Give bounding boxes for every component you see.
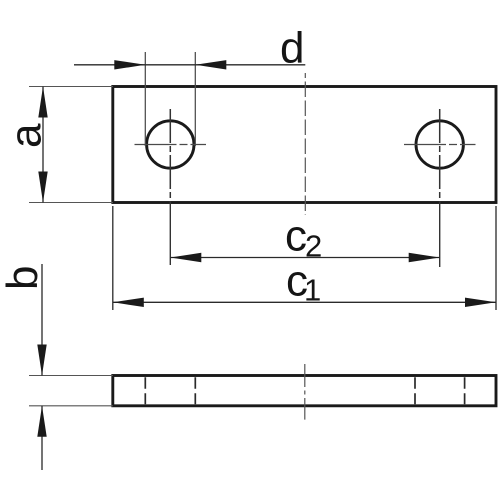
- hole 2 horizontal center line: [404, 144, 476, 146]
- svg-text:c: c: [285, 212, 307, 261]
- dimension b line lower segment: [41, 406, 43, 470]
- side view hole 1 right edge line: [194, 377, 196, 404]
- side view center line: [304, 364, 306, 420]
- dimension b arrow up (tip at bottom edge): [37, 406, 46, 437]
- dimension d arrow left (pointing right): [114, 60, 145, 69]
- side view hole 2 right edge line: [464, 377, 466, 404]
- dimension a arrow down: [38, 172, 47, 203]
- dimension c1 extension line left (below plate left edge): [112, 206, 114, 310]
- side view outline: [113, 376, 496, 406]
- dimension c2 arrow right (pointing right): [409, 253, 440, 262]
- hole 2 (right): [416, 121, 463, 168]
- hole 1 horizontal center line: [135, 144, 207, 146]
- dimension c1 arrow right (pointing right): [465, 298, 496, 307]
- plate front view outline: [113, 87, 496, 203]
- hole 2 center extension line (to c2): [439, 203, 441, 267]
- svg-text:a: a: [2, 123, 51, 148]
- side view hole 1 left edge line: [144, 377, 146, 404]
- dimension c2 line: [170, 257, 439, 259]
- svg-text:1: 1: [304, 273, 321, 308]
- dimension a extension line top: [29, 86, 113, 88]
- dimension a arrow up: [38, 87, 47, 118]
- dimension a extension line bottom: [29, 202, 113, 204]
- hole 1 (left): [147, 121, 194, 168]
- dimension b extension line top: [29, 375, 113, 377]
- dimension c1 line: [113, 301, 496, 303]
- hole 1 center extension line (to c2): [169, 203, 171, 265]
- dimension c1 arrow left (pointing left): [113, 298, 144, 307]
- dimension b extension line bottom: [29, 405, 113, 407]
- dimension a line: [42, 87, 44, 203]
- dimension d extension line left (hole 1 left tangent): [144, 52, 146, 146]
- svg-text:d: d: [280, 24, 304, 73]
- hole 1 vertical center line: [169, 109, 171, 203]
- dimension d line right segment: [195, 64, 305, 66]
- dimension b line upper segment: [41, 264, 43, 376]
- dimension c1 extension line right (below plate right edge): [495, 206, 497, 310]
- dimension d arrow right (pointing left): [195, 60, 226, 69]
- hole 2 vertical center line: [439, 109, 441, 203]
- dimension b arrow down (tip at top edge): [37, 345, 46, 376]
- plate symmetry center line (front view): [304, 73, 306, 215]
- svg-text:b: b: [0, 266, 47, 290]
- dimension c2 arrow left (pointing left): [170, 253, 201, 262]
- dimension d line middle segment: [145, 64, 195, 66]
- dimension d line left segment: [74, 64, 145, 66]
- dimension d extension line right (hole 1 right tangent): [194, 52, 196, 146]
- side view hole 2 left edge line: [414, 377, 416, 404]
